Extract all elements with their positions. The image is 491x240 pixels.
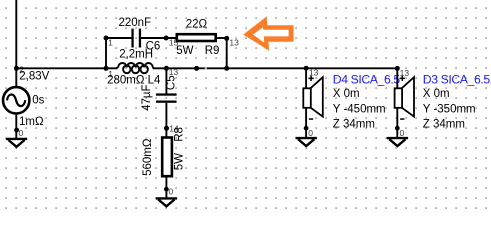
ground G2 [156,198,177,206]
wire: R9 right to riser [217,37,227,39]
plus sign at D4 [308,78,313,80]
ground G1 [6,139,27,147]
speaker D4 symbol [303,77,323,116]
svg-text:0s: 0s [32,95,44,107]
svg-text:22Ω: 22Ω [186,19,208,31]
wire: horizontal rail node 13 (right of L4) [153,67,397,69]
junction: node 13 at C5 tap on rail [164,66,169,71]
svg-text:Z 34mm: Z 34mm [333,119,375,131]
svg-text:C5: C5 [166,75,178,90]
svg-text:0: 0 [19,128,24,138]
junction: terminal above ground G4 [395,126,400,131]
junction: terminal above ground G1 [14,128,19,133]
wire: horizontal rail node 13/1 (left of L4) [16,67,117,69]
wire endpoint marker (grey) [205,67,207,69]
junction: node 1 on rail [104,66,109,71]
svg-text:R8: R8 [174,127,186,142]
svg-text:0: 0 [400,128,405,138]
wire: node 1 riser to top branch [105,38,107,68]
junction: node 14 [164,126,169,131]
wire: C5 bottom to R8 [165,103,167,137]
resistor R8 body [162,138,172,177]
svg-text:Y -350mm: Y -350mm [423,103,476,115]
svg-text:1mΩ: 1mΩ [19,116,44,128]
svg-text:13: 13 [229,38,239,48]
junction: terminal above ground G2 [164,187,169,192]
svg-text:47µF: 47µF [141,84,153,110]
wire: R9 riser down to rail [226,38,228,68]
junction: node 13 top of riser [224,36,229,41]
resistor R9 body [177,34,216,41]
inductor L4 coil [116,63,154,73]
capacitor C5 plates [156,93,177,95]
svg-text:0: 0 [169,187,174,197]
junction: D4 speaker tap on rail [304,66,309,71]
wire: D4 speaker bottom to ground [305,108,307,139]
wire: R8 bottom to ground G2 [165,176,167,199]
voltage source V1 circle [3,87,29,113]
wire: source V1 bottom to ground [15,114,17,140]
junction: D3 speaker tap on rail [395,66,400,71]
junction: terminal above ground G3 [304,126,309,131]
wire: D3 speaker bottom to ground [396,108,398,139]
ground G4 [387,138,408,146]
svg-text:13: 13 [400,68,410,78]
junction: node 1 top [104,36,109,41]
svg-text:Z 34mm: Z 34mm [423,119,465,131]
svg-text:560mΩ: 560mΩ [142,138,154,176]
minus sign at D4 [309,118,313,120]
svg-text:0: 0 [308,128,313,138]
wire: C6 to node 15 to R9 [141,37,176,39]
wire: C5 stem from rail [165,68,167,93]
capacitor C6 plates [131,29,133,48]
svg-text:220nF: 220nF [119,17,152,29]
svg-text:Y -450mm: Y -450mm [333,103,386,115]
junction: node 15 [164,36,169,41]
svg-text:R9: R9 [205,45,220,57]
orange highlight arrow [243,16,293,50]
plus sign at D3 [400,78,405,80]
svg-text:D3 SICA_6.5.P: D3 SICA_6.5.P [423,73,491,87]
svg-text:X 0m: X 0m [333,88,360,100]
svg-text:2,2mH: 2,2mH [119,48,153,60]
junction: wire joint on rail [194,66,199,71]
wire: top branch left (node1 to C6) [106,37,132,39]
svg-text:D4 SICA_6.5: D4 SICA_6.5 [333,73,401,87]
wire: D4 riser from rail to speaker [305,68,307,88]
ground G3 [296,138,317,146]
minus sign at D3 [400,118,404,120]
wire: D3 riser from rail to speaker [396,68,398,88]
junction: node 2 at source top / rail [14,66,19,71]
svg-text:X 0m: X 0m [423,88,450,100]
svg-text:5W: 5W [176,45,193,57]
junction: R9 riser at rail [224,66,229,71]
voltage source V1 sine symbol [7,95,25,107]
svg-text:2,83V: 2,83V [19,70,49,82]
speaker D3 symbol [395,77,414,116]
svg-text:5W: 5W [174,153,186,170]
wire: main vertical from top edge to source V1 [15,0,17,87]
